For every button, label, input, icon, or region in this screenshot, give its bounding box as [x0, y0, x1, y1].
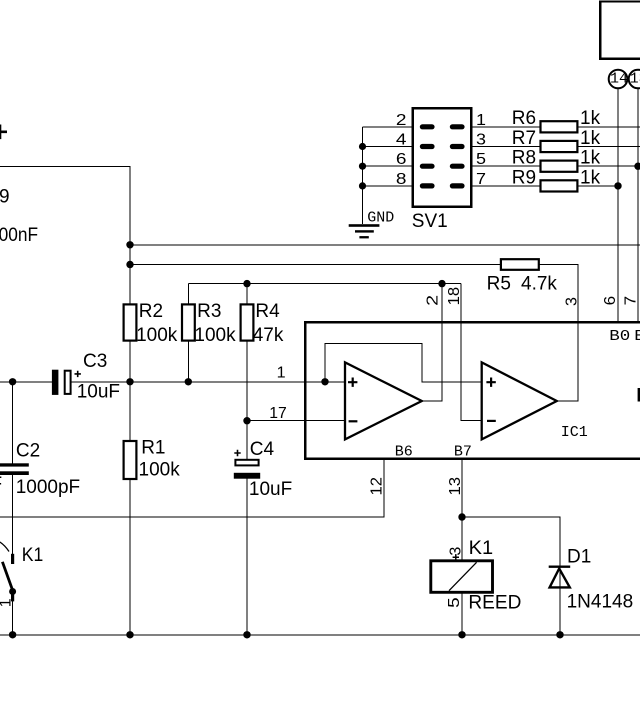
- wire R7 right: [576, 146, 640, 148]
- reed switch arm dot: [9, 588, 16, 595]
- ground symbol: [349, 224, 380, 238]
- node R9-pin6: [614, 182, 621, 189]
- node pin1-R2: [126, 378, 133, 385]
- wire pin 6 riser: [617, 88, 619, 322]
- top-right box: [600, 2, 640, 59]
- label fragment right edge: [638, 388, 640, 402]
- node R8-pin7: [634, 163, 640, 170]
- svg-text:3: 3: [476, 132, 486, 149]
- op-amp A: [345, 362, 422, 439]
- svg-text:1k: 1k: [580, 108, 601, 129]
- resistor R7: [541, 141, 578, 152]
- node feedback: [321, 378, 328, 385]
- svg-text:5: 5: [446, 597, 463, 608]
- node gnd-K1: [9, 631, 16, 638]
- wire R2 bottom: [129, 336, 131, 445]
- svg-text:7: 7: [623, 296, 640, 306]
- wire R5 to pin 3: [536, 265, 578, 402]
- capacitor C4: [234, 450, 260, 479]
- svg-text:B6: B6: [395, 443, 413, 460]
- reed switch K1: [0, 541, 13, 601]
- node sv1-8: [359, 182, 366, 189]
- op-amp B plus: [486, 378, 495, 387]
- svg-text:C2: C2: [16, 441, 40, 462]
- wire pin 12: [0, 459, 384, 517]
- svg-text:1000pF: 1000pF: [16, 477, 80, 498]
- svg-text:IC1: IC1: [561, 424, 588, 441]
- svg-text:GND: GND: [367, 210, 394, 227]
- resistor R5: [501, 259, 539, 270]
- svg-text:10uF: 10uF: [77, 381, 120, 402]
- wire pin 13: [461, 459, 463, 562]
- op-amp B minus: [487, 420, 496, 422]
- resistor R2: [124, 304, 137, 340]
- svg-text:4: 4: [396, 132, 407, 149]
- wire R9 right: [576, 185, 618, 187]
- wire C2 branch: [12, 382, 14, 464]
- resistor R1: [124, 441, 137, 479]
- svg-text:B0: B0: [609, 328, 630, 345]
- svg-text:10uF: 10uF: [249, 479, 292, 500]
- svg-text:C4: C4: [250, 439, 275, 460]
- wire pin 17: [247, 420, 345, 422]
- resistor R9: [541, 180, 578, 191]
- node gnd-K1coil: [458, 631, 465, 638]
- resistor R8: [541, 161, 578, 172]
- svg-text:5: 5: [476, 151, 486, 168]
- wire C4 bottom: [246, 479, 248, 635]
- wire SV1 pin 5 to R8: [451, 165, 542, 167]
- svg-text:7: 7: [476, 171, 486, 188]
- node gnd-D1: [556, 631, 563, 638]
- svg-text:K1: K1: [469, 538, 494, 559]
- relay coil plus mark: [453, 554, 459, 560]
- wire pin 7 riser: [637, 88, 639, 322]
- node pin13-D1: [458, 513, 465, 520]
- node A-R2: [126, 241, 133, 248]
- svg-text:1N4148: 1N4148: [567, 591, 634, 612]
- wire switch to bottom: [12, 601, 14, 635]
- svg-text:12: 12: [369, 477, 386, 496]
- wire SV1 pin 6: [363, 165, 435, 167]
- wire net A: [130, 244, 640, 246]
- wire ground bus bottom: [0, 634, 640, 636]
- node C-pin2: [438, 280, 445, 287]
- node gnd-C4: [243, 631, 250, 638]
- svg-text:4.7k: 4.7k: [521, 274, 557, 295]
- node C-R4: [243, 280, 250, 287]
- wire R3 top: [187, 284, 189, 310]
- wire SV1 pin 8: [363, 185, 435, 187]
- resistor R3: [182, 304, 195, 340]
- wire SV1 pin 3 to R7: [451, 146, 542, 148]
- wire pin 2 riser: [422, 284, 442, 401]
- svg-text:2: 2: [425, 295, 442, 306]
- node pin1-C2: [9, 378, 16, 385]
- svg-text:2: 2: [396, 112, 407, 129]
- svg-text:R6: R6: [512, 108, 536, 129]
- svg-text:R9: R9: [512, 167, 536, 188]
- svg-text:R8: R8: [512, 148, 536, 169]
- wire R8 right: [576, 165, 638, 167]
- svg-text:1: 1: [476, 112, 486, 129]
- relay coil K1: [431, 561, 493, 593]
- svg-text:100nF: 100nF: [0, 225, 38, 246]
- svg-text:18: 18: [446, 287, 463, 306]
- op-amp A minus: [349, 420, 358, 422]
- svg-text:K1: K1: [22, 545, 44, 566]
- wire pin 1 net right: [72, 381, 345, 383]
- wire SV1 left column: [362, 127, 364, 224]
- node gnd-R1: [126, 631, 133, 638]
- wire net B to R5: [130, 264, 505, 266]
- wire D1 bottom: [559, 587, 561, 634]
- svg-text:13: 13: [630, 70, 640, 87]
- resistor R6: [541, 121, 578, 132]
- svg-text:R2: R2: [139, 301, 163, 322]
- wire pin 1 net left: [0, 381, 52, 383]
- wire R6 right: [576, 126, 640, 128]
- wire R4 top: [246, 284, 248, 310]
- wire R1 bottom: [129, 476, 131, 635]
- svg-text:R5: R5: [487, 274, 511, 295]
- node sv1-4: [359, 143, 366, 150]
- svg-text:8: 8: [396, 171, 407, 188]
- wire R3 bottom: [187, 336, 189, 382]
- node pin17-R4: [243, 417, 250, 424]
- capacitor C3: [52, 370, 81, 395]
- wire SV1 pin 7 to R9: [451, 185, 542, 187]
- svg-text:B7: B7: [454, 443, 472, 460]
- wire coil bottom: [461, 592, 463, 635]
- op-amp B: [482, 362, 557, 439]
- svg-text:D1: D1: [567, 546, 591, 567]
- connector SV1: [413, 108, 471, 207]
- svg-text:100k: 100k: [139, 460, 181, 481]
- svg-text:SV1: SV1: [412, 211, 448, 232]
- svg-text:R7: R7: [512, 128, 536, 149]
- svg-text:R4: R4: [255, 301, 280, 322]
- capacitor C2: [0, 463, 29, 475]
- wire SV1 pin 1 to R6: [451, 126, 542, 128]
- svg-text:1k: 1k: [580, 128, 601, 149]
- svg-text:13: 13: [447, 477, 464, 496]
- wire coil to D1: [462, 517, 560, 566]
- svg-text:R1: R1: [141, 438, 165, 459]
- wire feedback loop: [325, 343, 482, 382]
- wire supply top-left: [0, 166, 130, 310]
- svg-text:1: 1: [277, 365, 286, 382]
- svg-text:100k: 100k: [136, 325, 178, 346]
- wire net C: [188, 283, 461, 285]
- IC1 box: [305, 322, 640, 459]
- node pin1-R3: [185, 378, 192, 385]
- svg-text:14: 14: [610, 70, 628, 87]
- wire SV1 pin 4: [363, 146, 435, 148]
- svg-text:B1: B1: [634, 328, 640, 345]
- terminal circle 13: [629, 70, 640, 89]
- svg-text:C3: C3: [83, 351, 107, 372]
- resistor R4: [241, 304, 254, 340]
- node B-R2: [126, 261, 133, 268]
- svg-text:9: 9: [0, 186, 10, 207]
- wire R4 bottom pin 17: [246, 336, 248, 460]
- svg-text:3: 3: [447, 547, 464, 556]
- wire SV1 pin 2: [363, 126, 435, 128]
- svg-text:R3: R3: [197, 301, 221, 322]
- svg-text:17: 17: [269, 405, 287, 422]
- wire pin 18 riser: [461, 284, 482, 421]
- svg-text:REED: REED: [468, 593, 521, 614]
- terminal circle 14: [609, 70, 628, 89]
- diode D1: [549, 567, 571, 588]
- svg-text:100k: 100k: [194, 325, 236, 346]
- svg-text:3: 3: [564, 297, 581, 306]
- svg-text:F: F: [0, 474, 2, 495]
- wire C2 to switch: [12, 475, 14, 554]
- svg-text:6: 6: [396, 151, 407, 168]
- wire D1 through: [559, 566, 561, 588]
- op-amp A plus: [348, 378, 357, 387]
- svg-text:1k: 1k: [580, 167, 601, 188]
- svg-text:6: 6: [602, 296, 619, 306]
- svg-text:1k: 1k: [580, 148, 601, 169]
- node sv1-6: [359, 163, 366, 170]
- svg-text:1: 1: [0, 598, 14, 607]
- svg-text:47k: 47k: [253, 325, 284, 346]
- label plus fragment top-left: [0, 125, 7, 140]
